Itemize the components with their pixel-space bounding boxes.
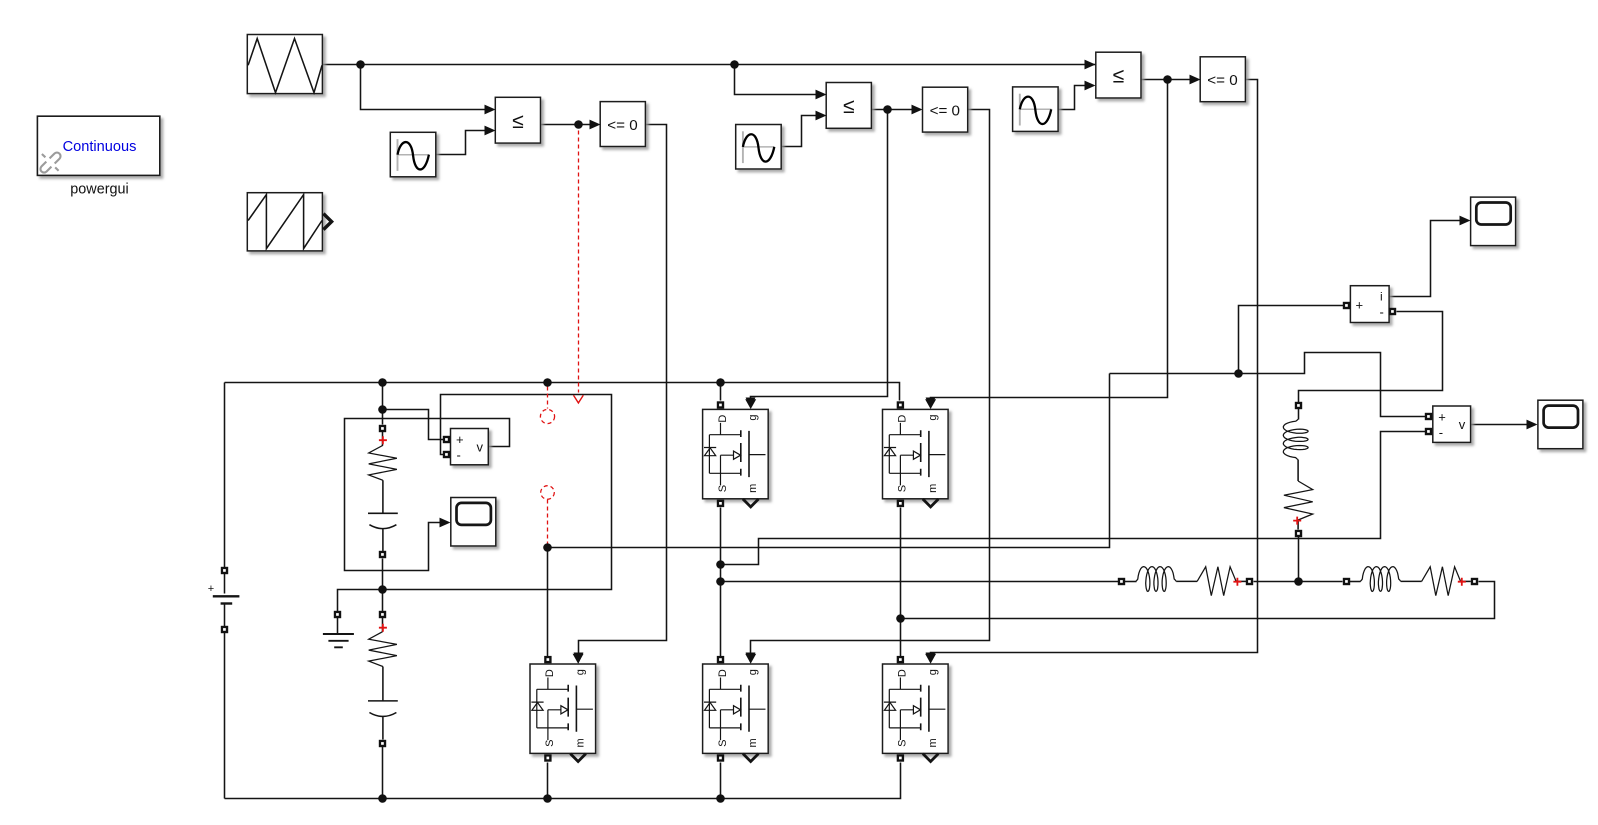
capacitor of RC branch 2 bbox=[368, 667, 398, 740]
battery DC voltage source E1 bbox=[208, 583, 240, 604]
arrowhead: into relational op 3 input b bbox=[1085, 81, 1096, 91]
wire: vertical RL branch bottom link bbox=[1298, 537, 1300, 582]
arrowhead: into MOSFET Q5 gate bbox=[926, 653, 936, 664]
broken line stub from positive bus bbox=[547, 387, 549, 409]
wire: ground lead bbox=[337, 612, 339, 634]
junction triangle bus B bbox=[730, 60, 739, 69]
port RL load 2 right bbox=[1471, 578, 1478, 585]
wire: vertical RL branch top to current measurement minus bbox=[1299, 312, 1443, 403]
wire: bus to RC branch 1 top bbox=[382, 383, 384, 425]
wire: sine 2 to relational op 2 input b bbox=[782, 116, 816, 147]
junction negative bus / Q4 source bbox=[716, 794, 725, 803]
svg-text:-: - bbox=[457, 448, 461, 463]
resistor of vertical RL branch bbox=[1284, 460, 1313, 530]
sine wave source 2 bbox=[736, 125, 782, 170]
junction compare 1 input node bbox=[574, 120, 583, 129]
wire: MOSFET Q1 source to voltage measurement 2 minus bbox=[721, 432, 1427, 565]
arrowhead: into MOSFET Q4 gate bbox=[746, 653, 756, 664]
resistor of RC branch 2 bbox=[369, 632, 397, 667]
junction current tap node bbox=[1234, 369, 1243, 378]
voltage measurement VM1 bbox=[451, 429, 489, 465]
MOSFET Q4 (bottom middle) bbox=[703, 654, 769, 762]
svg-text:+: + bbox=[456, 432, 464, 447]
wire: compare 2 output to MOSFET Q4 gate bbox=[751, 110, 990, 655]
resistor of RC branch 1 bbox=[369, 445, 397, 480]
port VM2 + bbox=[1425, 413, 1432, 420]
wire: voltage measurement 2 output to scope C bbox=[1471, 424, 1527, 426]
svg-text:Continuous: Continuous bbox=[63, 139, 137, 155]
port battery + bbox=[221, 567, 228, 574]
red polarity + of RL load 2 bbox=[1458, 578, 1466, 586]
port RL load 1 left bbox=[1118, 578, 1125, 585]
repeating sequence block: triangle carrier bbox=[247, 35, 322, 94]
wire: RC branch 2 port to resistor stub bbox=[382, 615, 384, 632]
arrowhead: into compare 1 bbox=[590, 120, 601, 130]
arrowhead: into compare 3 bbox=[1190, 75, 1201, 85]
junction negative bus / RC2 bbox=[378, 794, 387, 803]
wire: MOSFET Q1 source to RL load 1 bbox=[721, 581, 1119, 583]
port ground bbox=[334, 611, 341, 618]
wire: relational op 3 junction to MOSFET Q3 gate bbox=[931, 80, 1168, 401]
port RL load 2 left bbox=[1343, 578, 1350, 585]
junction Q1 source b bbox=[716, 577, 725, 586]
arrowhead: into scope B bbox=[1460, 216, 1471, 226]
port vertical RL bottom bbox=[1295, 530, 1302, 537]
wire: current measurement output to scope B bbox=[1390, 221, 1461, 297]
wire: relational op 2 output to compare 2 bbox=[872, 109, 913, 111]
sine wave source 3 bbox=[1013, 87, 1059, 131]
wire: voltage measurement minus loop to ground node bbox=[338, 395, 612, 612]
wire: battery plate leads bbox=[224, 571, 226, 631]
red polarity + of RC branch 1 bbox=[379, 436, 387, 444]
wire: MOSFET Q1s source to negative bus bbox=[547, 763, 549, 799]
red polarity + of RC branch 2 bbox=[379, 624, 387, 632]
arrowhead: into relational op 2 input b bbox=[816, 111, 827, 121]
wire: voltage measurement output to scope A bbox=[345, 419, 510, 571]
wire: branch to relational op 1 input a bbox=[361, 65, 485, 110]
arrowhead: into scope C bbox=[1527, 420, 1538, 430]
MOSFET Q2 (bottom left) bbox=[530, 654, 596, 762]
inductor of RL load 2 bbox=[1360, 567, 1400, 592]
wire: negative DC bus bbox=[225, 763, 901, 799]
wire: RL load 1 port to coil stub bbox=[1122, 581, 1137, 583]
current measurement IM1 bbox=[1350, 286, 1389, 323]
port IM1 + bbox=[1343, 302, 1350, 309]
broken gate line from compare 1 junction bbox=[578, 131, 580, 393]
wire: triangle output main bus bbox=[323, 64, 1096, 66]
wire: sine 3 to relational op 3 input b bbox=[1059, 86, 1085, 110]
junction Q3 source node bbox=[896, 614, 905, 623]
svg-text:+: + bbox=[1438, 410, 1446, 425]
compare to zero 3 bbox=[1200, 57, 1245, 102]
svg-text:v: v bbox=[1459, 417, 1466, 432]
red polarity + of RL load 1 bbox=[1233, 578, 1241, 586]
junction negative bus / Q2 source bbox=[543, 794, 552, 803]
arrowhead: into relational op 3 input a bbox=[1085, 60, 1096, 70]
red polarity + of vertical RL branch bbox=[1293, 517, 1301, 525]
wire: sine 1 to relational op 1 input b bbox=[436, 131, 485, 155]
wire: current node to voltage measurement 2 plus bbox=[1110, 353, 1427, 417]
arrowhead: into MOSFET Q1 gate bbox=[746, 398, 756, 409]
wire: battery positive riser bbox=[224, 383, 226, 568]
junction RL load junction bbox=[1294, 577, 1303, 586]
arrowhead: into compare 2 bbox=[912, 105, 923, 115]
broken line stub to node A bbox=[547, 500, 549, 544]
port vertical RL top bbox=[1295, 402, 1302, 409]
wire: MOSFET Q3 source to MOSFET Q5 drain leg bbox=[900, 508, 902, 657]
wire: MOSFET Q4 source to negative bus bbox=[720, 763, 722, 799]
svg-text:-: - bbox=[1439, 425, 1443, 440]
wire: compare 2 junction to MOSFET Q1 gate bbox=[751, 110, 888, 401]
scope B (top right) bbox=[1471, 197, 1516, 246]
svg-text:powergui: powergui bbox=[70, 182, 128, 198]
junction positive bus / RC1 bbox=[378, 378, 387, 387]
MOSFET Q1 (top middle-left) bbox=[703, 399, 769, 507]
wire: RC branch 1 bottom to node G bbox=[382, 559, 384, 612]
junction triangle bus A bbox=[356, 60, 365, 69]
resistor of RL load 2 bbox=[1401, 567, 1471, 596]
junction node A (Q2 drain) bbox=[543, 543, 552, 552]
arrowhead: into relational op 1 input b bbox=[485, 126, 496, 136]
svg-text:+: + bbox=[1356, 298, 1364, 313]
wire: RL load 1 to RL load 2 link bbox=[1254, 581, 1343, 583]
junction ground node G bbox=[378, 585, 387, 594]
sine wave source 1 bbox=[390, 132, 436, 177]
wire: node to voltage measurement plus bbox=[383, 410, 444, 440]
svg-text:i: i bbox=[1380, 290, 1383, 304]
wire: MOSFET Q1 source to MOSFET Q4 drain leg bbox=[720, 508, 722, 657]
ground symbol G1 bbox=[323, 634, 354, 647]
junction Q1 source a bbox=[716, 560, 725, 569]
wire: relational op 1 output to compare 1 bbox=[541, 124, 590, 126]
wire: node A to MOSFET Q1s drain bbox=[547, 548, 549, 657]
inductor of RL load 1 bbox=[1136, 567, 1176, 592]
relational operator 3 bbox=[1096, 52, 1141, 98]
port RL load 1 right bbox=[1246, 578, 1253, 585]
svg-text:+: + bbox=[208, 583, 214, 595]
compare to zero 2 bbox=[923, 87, 968, 132]
wire: positive bus to MOSFET Q1 drain bbox=[720, 383, 722, 401]
port RC branch 1 top bbox=[379, 425, 386, 432]
wire: node A to current node link bbox=[548, 374, 1110, 548]
port VM2 - bbox=[1425, 428, 1432, 435]
junction compare 2 input node bbox=[883, 105, 892, 114]
inductor of vertical RL branch bbox=[1283, 419, 1308, 459]
junction positive bus / Q1 drain bbox=[716, 378, 725, 387]
wire: compare 1 output to MOSFET Q2 gate bbox=[579, 125, 667, 655]
capacitor of RC branch 1 bbox=[368, 480, 398, 551]
port IM1 - bbox=[1389, 308, 1396, 315]
port RC branch 1 bottom bbox=[379, 551, 386, 558]
wire: relational op 3 output to compare 3 bbox=[1141, 79, 1190, 81]
junction positive bus / broken stub bbox=[543, 378, 552, 387]
arrowhead: into MOSFET Q2 gate bbox=[574, 653, 584, 664]
broken line circle 2 bbox=[541, 486, 555, 500]
wire: RC branch 1 port to resistor stub bbox=[382, 429, 384, 446]
wire: compare 3 output to MOSFET Q5 gate bbox=[931, 80, 1258, 655]
svg-text:v: v bbox=[477, 440, 484, 455]
port RC branch 2 bottom bbox=[379, 740, 386, 747]
scope A (left) bbox=[451, 498, 496, 547]
wire: current node to current measurement plus bbox=[1239, 306, 1345, 374]
wire: RL load 2 return to MOSFET Q3 source bbox=[901, 582, 1495, 619]
powergui block bbox=[37, 116, 159, 198]
voltage measurement VM2 bbox=[1433, 406, 1471, 442]
wire: vertical RL port to coil stub bbox=[1298, 406, 1300, 420]
port battery - bbox=[221, 626, 228, 633]
wire: battery negative drop bbox=[224, 633, 226, 799]
resistor of RL load 1 bbox=[1176, 567, 1246, 596]
port VM1 + bbox=[443, 436, 450, 443]
wire: branch to relational op 2 input a bbox=[735, 65, 816, 95]
relational operator 2 bbox=[826, 83, 871, 129]
broken line circle 1 bbox=[540, 409, 554, 423]
wire: RL load 2 port to coil stub bbox=[1347, 581, 1361, 583]
svg-text:-: - bbox=[1380, 305, 1384, 320]
wire: positive DC bus bbox=[225, 383, 900, 401]
compare to zero 1 bbox=[600, 102, 645, 147]
arrowhead: into relational op 2 input a bbox=[816, 90, 827, 100]
port RC branch 2 top bbox=[379, 611, 386, 618]
MOSFET Q5 (bottom right) bbox=[883, 654, 949, 762]
arrowhead: into scope A bbox=[440, 518, 451, 528]
wire: RC branch 2 bottom to negative bus bbox=[382, 747, 384, 799]
scope C (right) bbox=[1538, 400, 1583, 449]
arrowhead: into MOSFET Q3 gate bbox=[926, 398, 936, 409]
MOSFET Q3 (top middle-right) bbox=[883, 399, 949, 507]
junction RC1 top tap bbox=[378, 405, 387, 414]
port VM1 - bbox=[443, 451, 450, 458]
arrowhead: into relational op 1 input a bbox=[485, 105, 496, 115]
repeating sequence block: sawtooth (unconnected) bbox=[247, 193, 331, 251]
junction compare 3 input node bbox=[1163, 75, 1172, 84]
relational operator 1 bbox=[495, 97, 540, 143]
broken line arrowhead bbox=[574, 395, 584, 403]
